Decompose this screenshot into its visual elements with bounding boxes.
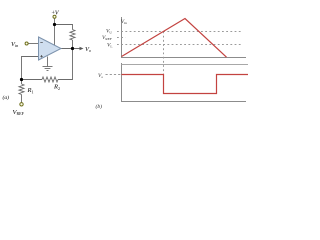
svg-text:(b): (b): [96, 103, 103, 110]
svg-text:(a): (a): [3, 94, 10, 101]
